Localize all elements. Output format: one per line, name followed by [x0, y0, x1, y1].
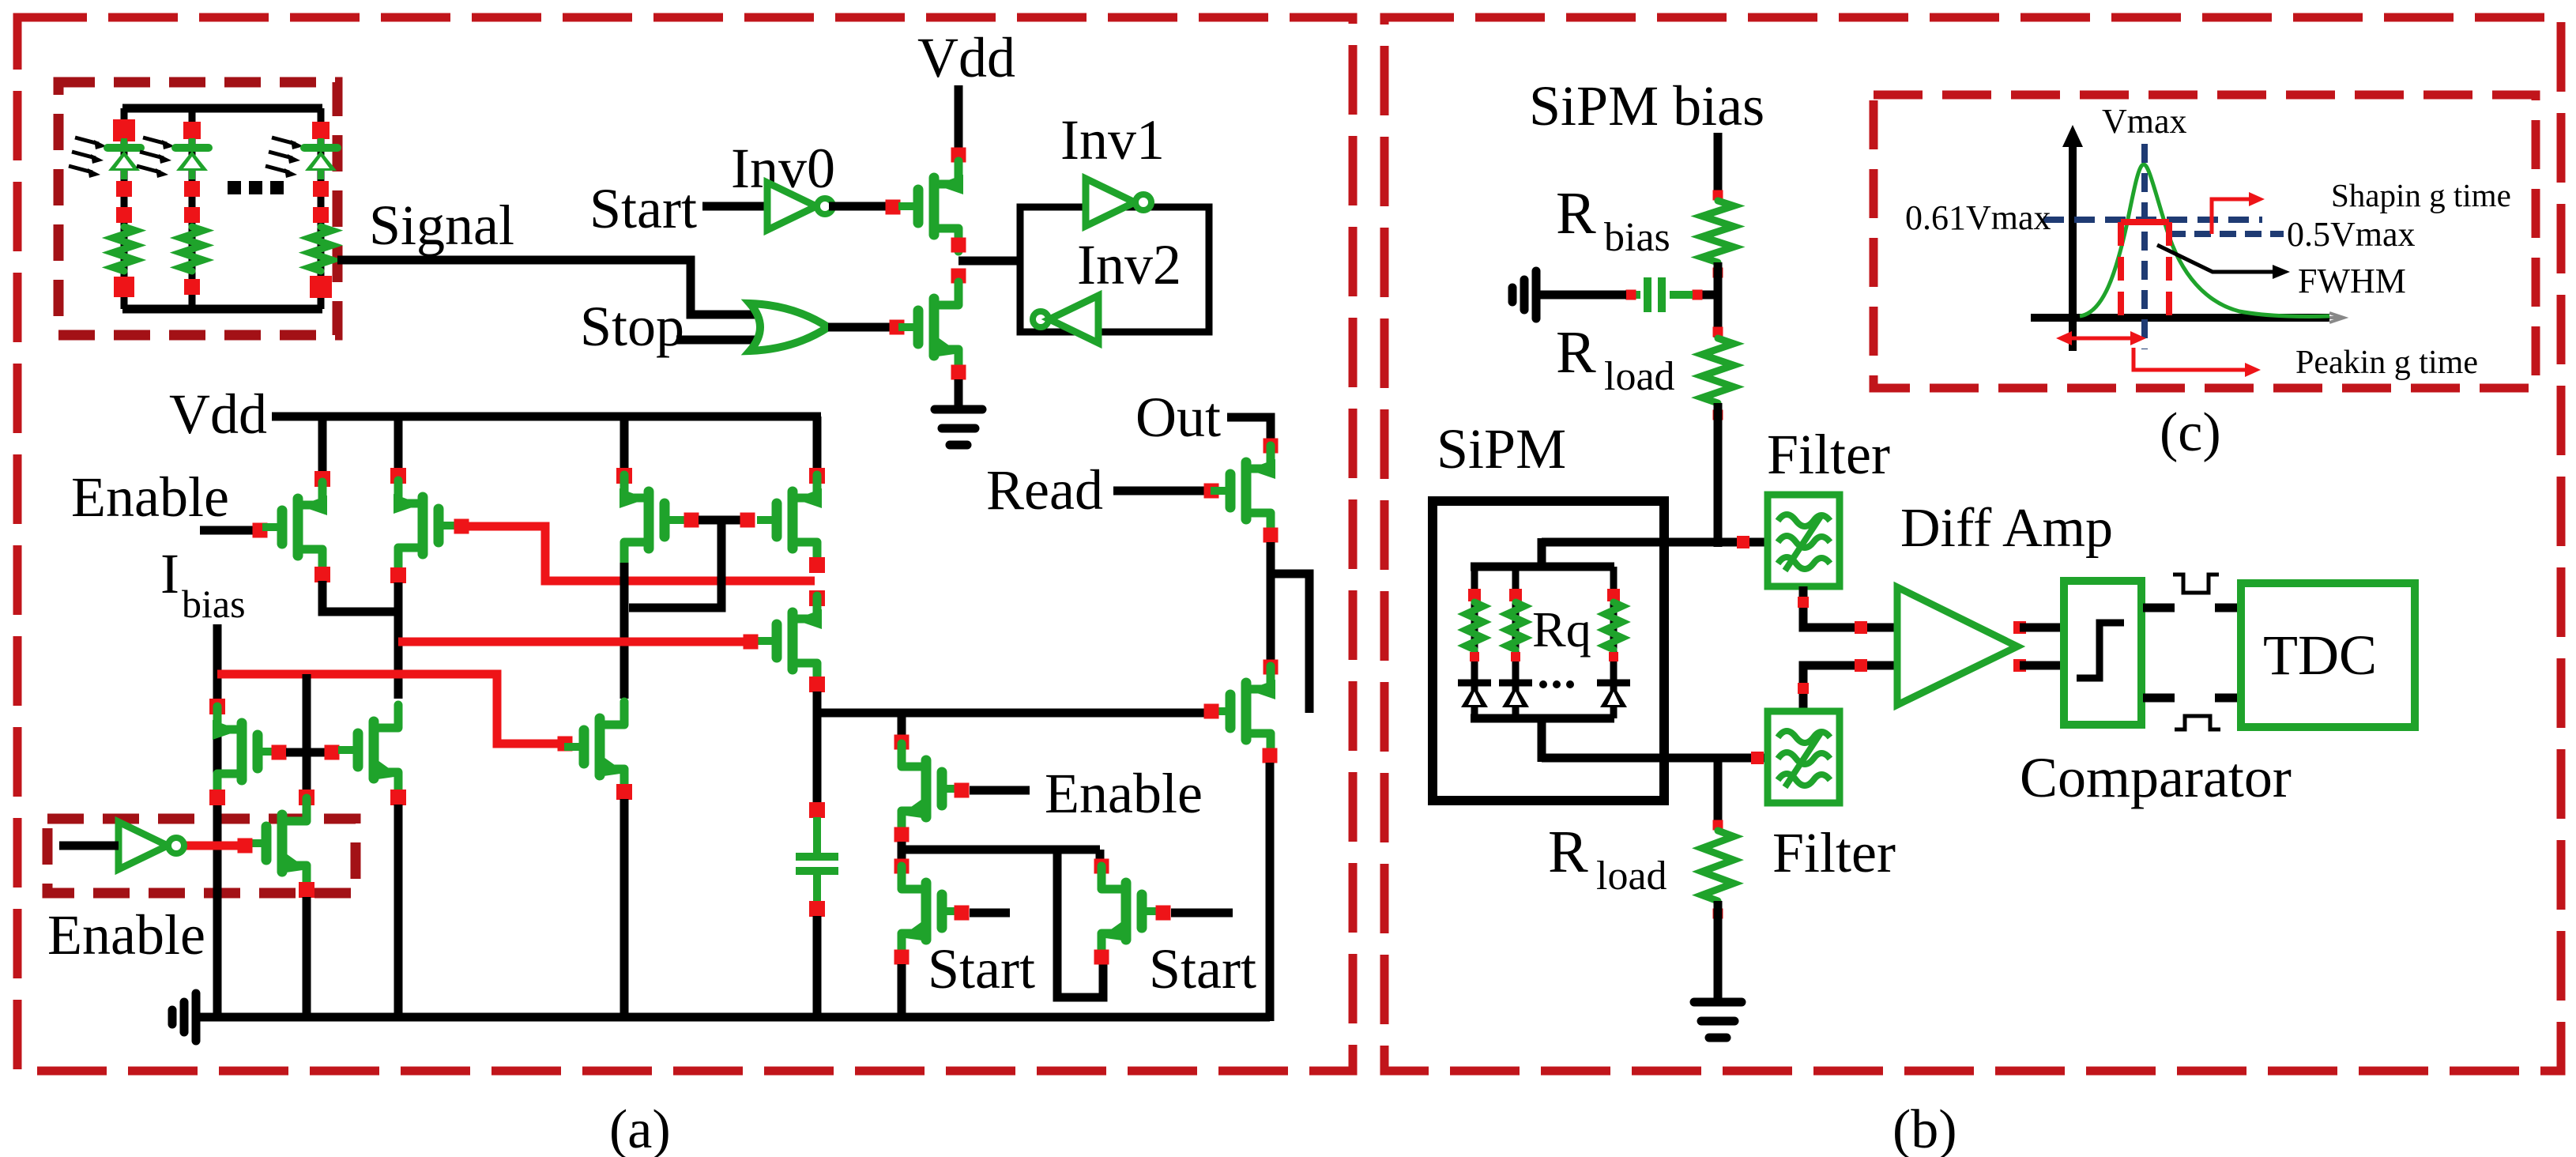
wire Inv0 to M1 gate [829, 202, 886, 211]
node square M15 source [894, 950, 910, 965]
red double arrow peaking [2066, 337, 2137, 341]
svg-text:Inv2: Inv2 [1077, 233, 1181, 296]
nmos M8 [217, 707, 239, 729]
wire side stub [1271, 574, 1309, 713]
node square M11 source [616, 784, 632, 800]
resistor Rbias [1702, 201, 1734, 262]
ground rail wire [196, 1013, 1270, 1022]
node square M3 gate [253, 523, 268, 538]
wire Ibias vertical [213, 624, 222, 1017]
wire C1 stub bottom [813, 874, 821, 903]
pmos M13 [1248, 446, 1271, 469]
svg-text:Start: Start [589, 177, 697, 240]
wire U loop [1057, 850, 1103, 997]
nmos M16 [1102, 866, 1124, 889]
svg-text:R: R [1556, 319, 1596, 386]
quench resistor D1 [113, 227, 135, 271]
node square C2 right [1693, 290, 1703, 300]
capacitor C2 [1644, 277, 1651, 312]
wire C1 stub top [813, 817, 821, 854]
svg-text:R: R [1556, 180, 1596, 247]
wire TDC in top [2215, 604, 2244, 612]
wire SiPM inner top rail [1471, 563, 1614, 571]
wire start row horizontal [902, 846, 1100, 854]
y axis [2069, 141, 2077, 351]
diode DD1 [1458, 680, 1491, 687]
node square M7 drain [809, 590, 825, 606]
node square M14 source [1263, 748, 1278, 763]
x axis arrowhead [2329, 313, 2344, 322]
node square D3 bottom [310, 276, 332, 298]
svg-text:Inv1: Inv1 [1060, 108, 1165, 171]
enable inverter dashed box [47, 819, 356, 893]
wire M16 gate stub [1171, 909, 1233, 918]
red dashed shaping right [2166, 222, 2172, 322]
wire C2 left stub [1631, 291, 1640, 299]
wire M9 source vertical [394, 805, 403, 1017]
wire bias node vertical [1714, 262, 1723, 337]
inverter InvE [119, 822, 168, 869]
photodiode D1 [107, 144, 141, 152]
node square F2 out a [1798, 683, 1809, 694]
light arrows D1 [75, 138, 99, 144]
inverter Inv2 [1033, 311, 1049, 327]
capacitor C1 [796, 853, 838, 861]
wire Out [1227, 417, 1271, 441]
wire Vdd drop M5 [620, 416, 629, 471]
wire Rload2 down [1714, 901, 1723, 1002]
panel (a) dashed border [17, 17, 1353, 1071]
node square M15 gate [955, 906, 970, 921]
wire out-node horizontal [817, 709, 1204, 718]
node square M4 source [390, 567, 406, 583]
pmos M6 [795, 475, 817, 498]
wire SiPM bias stub [1714, 133, 1723, 190]
wire A1 to comparator top [2020, 624, 2064, 632]
node square M5 gate [684, 513, 699, 528]
wire Vdd rail [272, 413, 821, 421]
svg-text:Stop: Stop [580, 295, 684, 358]
nmos M2 [936, 282, 958, 305]
resistor Rload2 [1702, 831, 1734, 901]
wire G1 to M2 gate [828, 323, 890, 332]
node square M6 source [809, 557, 825, 573]
node square D2 a [184, 181, 200, 197]
photodiode D2 [175, 144, 209, 152]
node square M8 gate [272, 745, 287, 760]
wire Rq branch 3 [1610, 567, 1618, 718]
node square Rq2 top [1509, 589, 1522, 601]
wire bias tee [1542, 538, 1768, 547]
wire C2 stub [1670, 291, 1693, 299]
node square M13 source [1264, 528, 1279, 543]
inset (c) dashed border [1874, 95, 2536, 388]
svg-text:Filter: Filter [1772, 821, 1896, 884]
node square D2 top [183, 122, 201, 139]
wire M16 drain drop [1096, 850, 1105, 861]
wire enable input [59, 842, 119, 850]
node square D1 top [113, 119, 135, 141]
wire Vdd drop M6 [813, 416, 822, 471]
node square M11 gate [558, 737, 573, 752]
wire M12 gate stub [970, 786, 1030, 795]
node square M2 gate [890, 320, 905, 335]
nmos M11 [602, 702, 624, 725]
wire cross-couple gates [286, 748, 325, 757]
quench resistor D2 [181, 227, 203, 271]
svg-text:bias: bias [1604, 215, 1670, 260]
panel (b) dashed border [1384, 17, 2561, 1071]
node square filter1 in [1737, 536, 1749, 548]
blue dashed peak line [2141, 144, 2148, 349]
svg-text:TDC: TDC [2263, 624, 2377, 687]
node square M4 drain [390, 468, 406, 484]
wire M5-M6 gates [699, 516, 740, 525]
wire M12 to M15 [898, 842, 906, 861]
node square M1 source [951, 238, 966, 253]
wire C2 to ground [1536, 291, 1626, 300]
node square M14 drain [1264, 660, 1279, 675]
svg-text:FWHM: FWHM [2298, 262, 2406, 300]
svg-text:Filter: Filter [1767, 423, 1890, 486]
wire M5 source chain [620, 563, 629, 699]
node square D3 top [312, 122, 330, 139]
amplifier A1 [1897, 587, 2017, 705]
node square Rq3 top [1607, 589, 1620, 601]
comparator step symbol [2077, 623, 2124, 678]
ground symbol bias [1532, 271, 1541, 318]
wire comparator out bottom [2143, 694, 2175, 703]
wire C2 to junction [1702, 291, 1718, 300]
node square Rload2 top [1713, 820, 1723, 831]
pmos M7 [795, 596, 817, 619]
svg-text:Peakin g time: Peakin g time [2295, 345, 2478, 381]
node square C2 left [1626, 290, 1636, 300]
wire Vdd drop M3 [318, 416, 327, 474]
wire M10 source vertical [303, 897, 311, 1017]
svg-text:Vdd: Vdd [917, 26, 1015, 89]
filter F2 [1768, 711, 1840, 803]
svg-text:0.61Vmax: 0.61Vmax [1905, 198, 2051, 237]
wire Rload2 tee [1714, 758, 1723, 820]
wire red net1 [469, 526, 815, 581]
node square Rload1 top [1713, 327, 1723, 337]
node square M16 gate [1156, 906, 1171, 921]
node square F1 out a [1798, 597, 1809, 608]
blue dashed 0.5 level [2169, 231, 2284, 237]
wire Rload1 down [1714, 403, 1723, 547]
svg-text:Read: Read [986, 458, 1103, 522]
pulse curve [2080, 164, 2329, 316]
svg-text:(b): (b) [1892, 1099, 1957, 1157]
svg-text:SiPM bias: SiPM bias [1529, 74, 1764, 138]
node square M4 gate [454, 519, 469, 534]
comparator U1 [2064, 581, 2141, 725]
pmos M14 [1248, 666, 1271, 689]
node square M16 source [1094, 950, 1109, 965]
node square D1 a [116, 181, 132, 197]
node square Rload1 bottom [1713, 410, 1723, 420]
wire M11 source vertical [620, 799, 629, 1017]
wire Vdd drop M4 [394, 416, 403, 471]
diode DD2 [1499, 680, 1532, 687]
quench resistor D3 [310, 227, 332, 271]
svg-text:(c): (c) [2160, 402, 2221, 463]
resistor Rload1 [1702, 338, 1734, 403]
svg-text:load: load [1604, 354, 1675, 399]
pmos M3 [300, 482, 322, 505]
svg-text:Vmax: Vmax [2102, 102, 2187, 141]
node square M12 source [894, 827, 910, 842]
ground M2 [935, 405, 982, 414]
array bottom rail wire [122, 305, 322, 314]
node square D1 bottom [114, 277, 134, 297]
wire M15 gate stub [970, 909, 1010, 918]
red arrow shaping time [2212, 199, 2252, 234]
wire red bias net [217, 674, 558, 744]
svg-text:Out: Out [1135, 386, 1221, 449]
node square Rq1 top [1468, 589, 1481, 601]
red dashed shaping left [2118, 222, 2124, 322]
node square M8 drain [209, 699, 225, 714]
y axis arrowhead [2062, 125, 2083, 147]
node square F1 out b [1855, 621, 1867, 634]
svg-text:Diff Amp: Diff Amp [1900, 498, 2113, 559]
node square A1 out bottom [2013, 659, 2026, 672]
node square M13 gate [1204, 484, 1219, 499]
svg-text:Signal: Signal [369, 194, 514, 257]
pmos M4 [398, 481, 420, 503]
wire Rq branch 2 [1512, 567, 1520, 718]
SiPM outer box [1433, 501, 1664, 801]
wire red inv to M10 [173, 842, 238, 850]
resistor Rq2 [1507, 602, 1524, 650]
svg-text:Enable: Enable [47, 903, 205, 967]
blue dashed 0.61 level [2043, 217, 2262, 223]
nmos M12 [902, 744, 924, 767]
node square M7 gate [744, 635, 759, 650]
svg-text:Start: Start [1149, 937, 1256, 1001]
wire M15 source vertical [898, 964, 906, 1017]
node square M2 source [951, 365, 966, 380]
svg-text:Rq: Rq [1532, 601, 1591, 658]
pulse glyph top [2173, 575, 2219, 593]
svg-text:SiPM: SiPM [1437, 417, 1566, 481]
node square M8 source [209, 790, 225, 805]
node square D3 b [313, 207, 329, 223]
node square M7 source [809, 676, 825, 692]
nmos M15 [902, 866, 924, 889]
wire A1 to comparator bottom [2020, 661, 2064, 670]
svg-text:Shapin g time: Shapin g time [2331, 177, 2511, 213]
photodiode D3 [304, 144, 337, 152]
SiPM array dashed box [58, 82, 337, 335]
node square M13 drain [1264, 439, 1279, 454]
svg-text:Enable: Enable [1045, 762, 1203, 825]
wire gates link down [629, 520, 721, 608]
node square M6 drain [809, 468, 825, 484]
node square M1 gate [886, 200, 901, 215]
or-gate G1 [750, 303, 828, 351]
node square M3 drain [314, 471, 330, 487]
nmos M10 [284, 798, 307, 821]
wire TDC in bottom [2215, 694, 2244, 703]
wire F2 out [1803, 665, 1897, 711]
node square M9 gate [325, 745, 340, 760]
wire SiPM bottom riser [1538, 714, 1546, 762]
pmos M5 [624, 475, 646, 498]
node square M10 source [299, 882, 314, 898]
latch feedback box [1020, 207, 1209, 332]
node square M10 drain [299, 790, 314, 805]
node square M10 gate [238, 839, 253, 854]
svg-text:bias: bias [182, 582, 246, 626]
node square Rbias bottom [1713, 268, 1723, 278]
red shaping top link [2121, 219, 2169, 225]
light arrows D2 [143, 138, 167, 144]
wire Enable to M3 gate [200, 526, 253, 535]
ground symbol panel a [192, 993, 201, 1041]
wire Vdd stub [955, 85, 963, 150]
nmos M9 [376, 705, 398, 728]
node square M14 gate [1204, 704, 1219, 719]
wire SiPM top riser [1538, 538, 1546, 571]
svg-text:load: load [1596, 854, 1667, 899]
wire M3 jog [322, 581, 398, 612]
wire branch D3 [318, 108, 325, 309]
filter F1 [1768, 495, 1840, 586]
node square M12 gate [955, 783, 970, 798]
wire drop to M12 [898, 713, 906, 737]
inverter Inv0 [767, 183, 816, 230]
wire M14 source vertical [1266, 763, 1275, 1021]
node square M12 drain [894, 735, 910, 750]
resistor Rq3 [1605, 602, 1622, 650]
inverter Inv1 [1086, 179, 1135, 226]
node square Rq3 bottom [1609, 652, 1618, 661]
svg-text:R: R [1548, 819, 1588, 885]
svg-text:I: I [160, 542, 179, 605]
node square M5 drain [616, 468, 632, 484]
wire branch D2 [189, 108, 196, 309]
wire Start [702, 202, 767, 211]
node square D2 b [184, 207, 200, 223]
wire enable branch vertical [303, 674, 311, 792]
node square M15 drain [894, 859, 910, 874]
array top rail wire [122, 104, 322, 113]
wire SiPM bottom out [1542, 754, 1768, 763]
black arrow FWHM [2157, 245, 2276, 272]
node square M1 drain [951, 148, 966, 163]
ellipsis dots [228, 181, 241, 194]
red arrow peaking time [2133, 348, 2248, 370]
wire M7 source vertical [813, 692, 822, 810]
pmos M1 [936, 161, 958, 184]
node square M3 source [314, 567, 330, 582]
node square Rbias top [1713, 190, 1723, 201]
wire F1 out [1803, 586, 1897, 627]
node square Rq1 bottom [1470, 652, 1479, 661]
wire Read [1113, 487, 1204, 496]
svg-text:Vdd: Vdd [169, 383, 267, 446]
svg-text:Start: Start [928, 937, 1035, 1001]
node square filter2 in [1751, 752, 1764, 764]
wire latch node [958, 257, 1020, 266]
node square C1 bottom [809, 901, 825, 917]
pulse glyph bottom [2175, 716, 2220, 729]
wire M13 to M14 [1267, 542, 1275, 662]
light arrows D3 [272, 138, 296, 144]
diode DD3 [1597, 680, 1630, 687]
svg-text:Enable: Enable [71, 465, 229, 529]
node square M9 source [390, 790, 406, 805]
TDC box [2241, 583, 2415, 727]
node square Rload2 bottom [1713, 909, 1723, 919]
ground symbol Rload2 [1694, 998, 1742, 1007]
node square M6 gate [740, 513, 755, 528]
wire SiPM inner bottom rail [1471, 714, 1614, 723]
svg-text:0.5Vmax: 0.5Vmax [2287, 215, 2416, 254]
node square A1 out top [2013, 621, 2026, 634]
node square C1 top [809, 802, 825, 818]
x axis [2031, 314, 2329, 322]
resistor Rq1 [1466, 602, 1483, 650]
wire M2 source [955, 379, 963, 409]
ellipsis dots SiPM [1539, 680, 1547, 688]
wire Rq branch 1 [1471, 567, 1478, 718]
wire C1 to ground rail [813, 916, 822, 1017]
node square M2 drain [951, 269, 966, 284]
wire branch D1 [121, 108, 128, 309]
wire comparator out top [2143, 604, 2175, 612]
wire red net2 [398, 638, 744, 646]
node square M16 drain [1094, 859, 1109, 874]
node square D1 b [116, 207, 132, 223]
wire node X vertical [394, 582, 403, 699]
wire Signal [337, 260, 760, 315]
svg-text:Comparator: Comparator [2020, 746, 2292, 809]
node square Rq2 bottom [1511, 652, 1520, 661]
node square D2 bottom [184, 279, 200, 295]
wire Stop [676, 336, 760, 345]
node square D3 a [313, 181, 329, 197]
svg-text:(a): (a) [609, 1099, 671, 1157]
node square F2 out b [1855, 659, 1867, 672]
